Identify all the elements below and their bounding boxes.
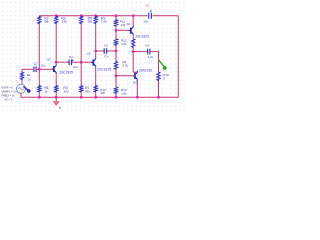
svg-text:27u: 27u: [104, 55, 109, 59]
svg-text:C1: C1: [34, 62, 38, 66]
svg-text:1k: 1k: [44, 90, 48, 94]
svg-text:2SC1815: 2SC1815: [135, 34, 149, 38]
svg-text:10u: 10u: [143, 20, 148, 24]
svg-text:Q1: Q1: [47, 58, 51, 62]
svg-text:6.2k: 6.2k: [122, 63, 128, 67]
svg-text:R1: R1: [27, 73, 31, 77]
svg-text:10u: 10u: [41, 63, 46, 67]
svg-text:2SC1815: 2SC1815: [97, 67, 111, 71]
svg-text:AC = 1: AC = 1: [4, 97, 13, 101]
svg-text:1.6k: 1.6k: [101, 20, 107, 24]
svg-text:C4: C4: [145, 43, 149, 47]
svg-text:C2: C2: [69, 55, 73, 59]
svg-text:2.0k: 2.0k: [121, 92, 127, 96]
svg-text:0: 0: [59, 106, 61, 110]
svg-text:68k: 68k: [44, 20, 49, 24]
svg-text:100: 100: [100, 91, 105, 95]
svg-text:1.6k: 1.6k: [61, 20, 67, 24]
svg-text:1k: 1k: [28, 78, 32, 82]
svg-text:2SC1815: 2SC1815: [59, 70, 73, 74]
svg-text:Q4: Q4: [126, 22, 130, 26]
svg-text:C5: C5: [145, 4, 149, 8]
svg-text:2SA1015: 2SA1015: [139, 68, 153, 72]
svg-text:Q2: Q2: [86, 52, 90, 56]
svg-text:Q5: Q5: [133, 81, 137, 85]
svg-text:10k: 10k: [120, 23, 125, 27]
svg-text:100: 100: [63, 90, 68, 94]
svg-text:4.6k: 4.6k: [121, 42, 127, 46]
svg-text:68k: 68k: [88, 20, 93, 24]
svg-text:43k: 43k: [85, 90, 90, 94]
svg-text:10u: 10u: [73, 65, 78, 69]
svg-text:C3: C3: [104, 44, 108, 48]
svg-text:2.2u: 2.2u: [148, 55, 154, 59]
